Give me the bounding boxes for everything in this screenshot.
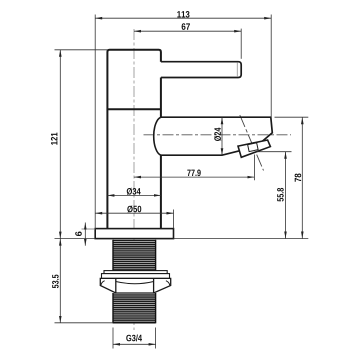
body joint line <box>107 108 160 110</box>
dim 77.9 extension right <box>253 155 255 181</box>
dim G3/4 extensions <box>112 328 114 349</box>
vertical centerline of tap body <box>133 29 135 330</box>
dim 67 label <box>182 23 190 30</box>
dim 121/53.5 shared extension at mounting plane <box>55 238 96 240</box>
dim Ø50 label <box>127 206 141 213</box>
dim 53.5 extension bottom <box>55 322 114 324</box>
base flange <box>95 229 173 239</box>
dim 67 extension right <box>240 29 242 59</box>
tap body column <box>107 50 160 229</box>
dim 6 extension top <box>82 228 96 230</box>
hex nut <box>100 278 170 293</box>
dim Ø50 line <box>95 212 173 214</box>
horizontal centerline of spout <box>144 134 292 136</box>
aerator inner detail <box>248 143 258 152</box>
lower threaded shank <box>113 293 156 323</box>
dim 55.8 line <box>285 152 287 239</box>
dim 78 extension top <box>275 116 309 118</box>
mounting plane extension right <box>174 238 309 240</box>
dim 67 line <box>134 30 241 32</box>
dim G3/4 label <box>126 334 142 341</box>
dim 6 line with outward arrows <box>84 223 86 246</box>
dim 77.9 line <box>134 176 254 178</box>
handle lever <box>161 62 241 78</box>
dim 53.5 line <box>59 239 61 323</box>
lever end cap line <box>236 62 238 77</box>
dim 53.5 label <box>52 275 59 289</box>
dim Ø50 extension right <box>173 210 175 229</box>
dim 55.8 extension top <box>257 151 292 153</box>
dim Ø34 line <box>107 194 160 196</box>
aerator housing <box>238 140 270 157</box>
dim 6 label <box>75 232 82 237</box>
dim 78 label <box>295 174 302 182</box>
aerator axis centerline <box>240 115 264 171</box>
dim 113 extension left <box>94 15 96 229</box>
spout / body intersection arc <box>154 117 161 155</box>
dim 113 line <box>95 17 271 19</box>
dim 121 extension top <box>55 49 108 51</box>
upper threaded shank <box>113 240 156 271</box>
washer <box>104 271 167 274</box>
dim 78 line <box>301 117 303 238</box>
dim G3/4 line <box>113 343 156 345</box>
spout outline <box>161 117 272 155</box>
dim 113 label <box>177 11 189 18</box>
dim Ø34 label <box>127 188 141 195</box>
dim 121 line <box>59 50 61 239</box>
dim Ø24 label <box>214 128 221 141</box>
dim 77.9 label <box>187 170 200 177</box>
dim 113 extension right <box>270 15 272 117</box>
dim 55.8 label <box>277 188 284 202</box>
dim Ø24 line <box>221 117 223 155</box>
dim 121 label <box>51 133 57 145</box>
